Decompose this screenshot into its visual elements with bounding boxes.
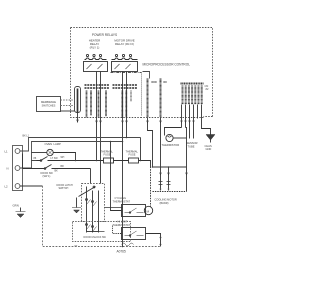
inner latch dashed box [73, 222, 131, 242]
junction dots [75, 137, 170, 248]
hi-limit thermostat box [122, 228, 146, 240]
svg-text:POWER RELAYS: POWER RELAYS [92, 33, 117, 37]
svg-text:#2: #2 [206, 87, 209, 91]
membrane ribbon connector P1 [75, 87, 81, 113]
svg-text:L2: L2 [5, 185, 9, 189]
svg-text:FUSE: FUSE [104, 153, 111, 157]
svg-text:COOLING MOTOR: COOLING MOTOR [155, 198, 177, 202]
connector P2 pin labels (left group) [85, 85, 110, 88]
svg-text:LT SW: LT SW [51, 157, 59, 160]
svg-text:GND: GND [206, 147, 212, 151]
svg-text:SWITCH: SWITCH [59, 187, 69, 190]
terminal block [13, 146, 23, 191]
svg-text:THERMISTOR: THERMISTOR [162, 143, 180, 147]
convection motor M1 [144, 206, 152, 214]
svg-text:CYCLING: CYCLING [115, 196, 127, 200]
svg-text:OVEN: OVEN [45, 142, 53, 146]
svg-text:P9: P9 [75, 246, 78, 248]
cooling fan connector assembly [153, 166, 187, 168]
wire N bus [20, 142, 123, 169]
oven lamp symbol and wire [32, 152, 47, 154]
door latch assembly dashed box [82, 184, 105, 222]
svg-text:(BLWR): (BLWR) [160, 201, 169, 205]
svg-text:GRN: GRN [13, 204, 19, 208]
svg-text:N: N [7, 167, 9, 171]
svg-text:BK: BK [55, 170, 59, 173]
connector P4 pin labels (sensor group) [143, 72, 150, 79]
cycling thermostat box [122, 205, 146, 217]
ground at latch [76, 198, 78, 208]
latch motor wires [105, 207, 123, 209]
svg-text:L1: L1 [5, 150, 9, 154]
dash-dot internal boundary [111, 72, 142, 74]
latch switches inside box [86, 187, 88, 233]
svg-text:DOOR UNLOCK SW: DOOR UNLOCK SW [84, 236, 107, 239]
svg-text:A0765: A0765 [117, 250, 126, 254]
svg-text:(SW 1): (SW 1) [43, 175, 51, 178]
svg-text:RELAY (RLY2): RELAY (RLY2) [115, 42, 134, 46]
connector CN2 pin block (dense right group) [181, 83, 204, 85]
svg-text:FUSE: FUSE [129, 153, 136, 157]
svg-text:M: M [147, 210, 150, 214]
wire membrane box to P1 [61, 110, 75, 112]
svg-text:(RLY 1): (RLY 1) [90, 46, 100, 50]
wire feed to thermostats [111, 142, 122, 211]
wires from P4 down [148, 118, 153, 167]
door switch row [23, 165, 91, 169]
connector P3 pin labels (middle group) [113, 85, 138, 88]
svg-text:LAMP: LAMP [54, 142, 62, 146]
wires from CN2 down [181, 105, 183, 128]
svg-text:WH: WH [61, 157, 65, 159]
ribbon cable dashed wires [61, 100, 75, 106]
thermistor loop [165, 128, 182, 136]
drawing number symbol [122, 243, 134, 246]
svg-text:TUBE: TUBE [188, 145, 195, 149]
svg-text:MICROPROCESSOR CONTROL: MICROPROCESSOR CONTROL [143, 63, 191, 67]
wire door drop [90, 169, 92, 184]
door latch interlock switch [79, 187, 96, 197]
wire L1 drop to fuse row [140, 138, 142, 161]
svg-text:THERMOSTAT: THERMOSTAT [113, 223, 131, 227]
wire L2 run [20, 185, 43, 187]
svg-text:86: 86 [34, 157, 37, 160]
membrane switches box [37, 97, 61, 112]
chassis ground symbol right [206, 135, 215, 143]
wire P1 lead down [77, 113, 79, 123]
wire hi-limit loop [146, 234, 161, 247]
wire L2 dashed drop [43, 186, 161, 247]
microprocessor control board dashed enclosure [71, 28, 213, 118]
lamp switch [37, 157, 97, 161]
heater relay RLY1 symbol [84, 54, 108, 71]
motor drive relay RLY2 symbol [112, 54, 138, 71]
svg-text:BR: BR [61, 166, 65, 168]
svg-text:SWITCHES: SWITCHES [42, 104, 56, 108]
wires from RLY2 down through P3 [122, 72, 124, 247]
wires from RLY1 down through P2 [96, 72, 98, 161]
wire L1 bus [20, 138, 141, 152]
svg-text:MEMBRANE: MEMBRANE [41, 100, 56, 104]
svg-text:THERMOSTAT: THERMOSTAT [113, 200, 131, 204]
svg-text:SENSOR: SENSOR [187, 141, 198, 145]
svg-text:BK L1: BK L1 [23, 135, 30, 138]
